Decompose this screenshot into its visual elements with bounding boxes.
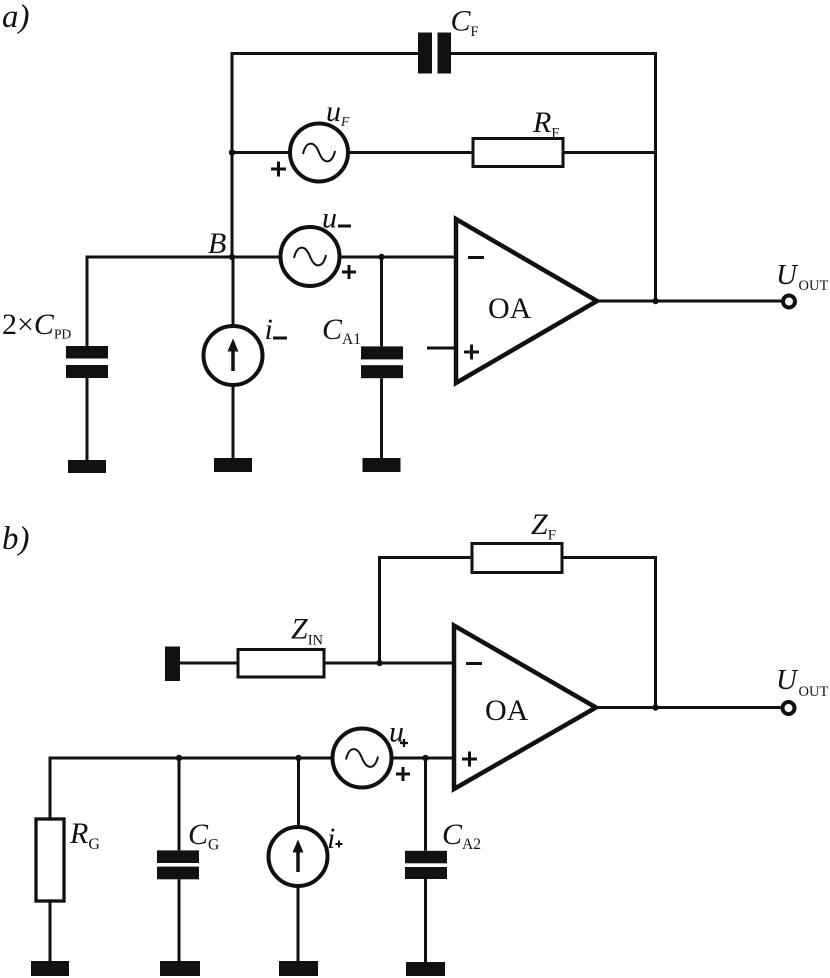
plus mark op-amp b (462, 752, 477, 767)
svg-text:CA1: CA1 (322, 313, 361, 348)
svg-text:i: i (265, 313, 273, 346)
voltage source u_plus (333, 729, 392, 788)
node junction C_A2 tap (422, 755, 428, 761)
capacitor C_A2 branch wire (424, 758, 427, 851)
op-amp U2 (OA) figure b (454, 626, 596, 790)
resistor R_G (36, 819, 64, 901)
svg-text:U: U (776, 259, 799, 291)
wire u_plus to op-amp b (392, 757, 455, 760)
wire C_G to ground (178, 879, 181, 961)
voltage source u_F (290, 124, 348, 182)
node B junction (229, 254, 235, 260)
plus input stub op-amp a (427, 347, 456, 350)
resistor Z_IN (238, 650, 324, 678)
svg-text:u: u (322, 202, 337, 235)
svg-text:OUT: OUT (799, 684, 829, 700)
current source i_minus (204, 326, 263, 385)
resistor Z_F (472, 544, 562, 573)
wire output a (597, 300, 783, 303)
ground of i_minus (214, 458, 252, 472)
svg-text:CF: CF (451, 5, 479, 40)
wire i_minus to ground (232, 385, 235, 458)
capacitor C_A1 branch wire (380, 257, 383, 346)
output terminal b (783, 702, 795, 714)
capacitor C_F (418, 33, 451, 74)
svg-text:2×CPD: 2×CPD (2, 308, 71, 342)
input terminal bar Z_IN (165, 647, 180, 682)
node junction C_G tap (176, 755, 182, 761)
svg-text:ZIN: ZIN (291, 613, 324, 649)
plus mark of u_minus (342, 265, 356, 279)
wire i_plus to ground (297, 886, 300, 961)
wire u_minus to op-amp (340, 256, 457, 259)
node junction C_A1 tap (378, 254, 384, 260)
voltage source u_minus (281, 227, 340, 286)
node junction output a (652, 298, 658, 304)
svg-text:CA2: CA2 (442, 818, 481, 853)
svg-text:ZF: ZF (531, 508, 556, 544)
svg-text:i: i (327, 822, 335, 855)
ground of 2xC_PD (68, 460, 106, 473)
resistor R_F (473, 139, 563, 167)
svg-text:OA: OA (488, 292, 532, 325)
svg-text:b): b) (2, 521, 30, 557)
minus mark op-amp b (466, 662, 482, 665)
node junction at 232,152.5 (229, 149, 235, 155)
capacitor 2xC_PD branch wire (86, 256, 89, 347)
wire R_F to right vertical (563, 151, 656, 154)
ground of C_A1 (363, 458, 401, 472)
plus mark op-amp a (464, 345, 479, 360)
svg-text:OA: OA (485, 694, 529, 727)
ground of C_G (160, 961, 200, 976)
current source i_minus wire from B (232, 257, 235, 327)
wire C_A2 to ground (424, 879, 427, 962)
svg-text:RG: RG (69, 817, 100, 853)
capacitor 2xC_PD (66, 346, 108, 378)
current source i_plus (269, 827, 328, 886)
wire u_F to R_F (348, 151, 473, 154)
wire right vertical (output to C_F) (654, 52, 657, 301)
svg-text:a): a) (2, 0, 30, 35)
minus mark op-amp a (468, 256, 484, 259)
wire B row left (87, 256, 281, 259)
wire left vertical from top to node B (231, 52, 234, 257)
wire bottom rail left (49, 757, 333, 760)
output terminal a (783, 296, 795, 308)
op-amp U1 (OA) figure a (456, 219, 597, 383)
wire feedback right vertical b (654, 556, 657, 708)
wire terminal to Z_IN (180, 662, 238, 665)
current source i_plus wire (297, 758, 300, 828)
svg-text:U: U (776, 664, 799, 696)
node junction inverting input b (376, 660, 382, 666)
wire top feedback left segment (232, 52, 418, 55)
svg-text:uF: uF (326, 95, 350, 129)
ground of R_G (31, 961, 69, 976)
wire R_G to ground (49, 901, 52, 961)
capacitor C_A2 (405, 851, 447, 879)
wire u_F row left (232, 151, 290, 154)
plus mark of u_F (271, 162, 286, 177)
svg-text:OUT: OUT (799, 278, 829, 294)
resistor R_G branch wire (49, 757, 52, 820)
capacitor C_A1 (361, 346, 403, 378)
wire output b (596, 706, 783, 709)
wire Z_IN to op-amp b (324, 662, 454, 665)
wire top feedback right segment (451, 52, 656, 55)
wire 2xC_PD to ground (86, 378, 89, 460)
plus mark of u_plus (396, 767, 410, 781)
wire feedback left vertical b (378, 556, 381, 663)
ground of i_plus (279, 961, 318, 976)
ground of C_A2 (406, 962, 445, 976)
node junction i_plus tap (295, 755, 301, 761)
wire Z_F top left (380, 556, 473, 559)
svg-text:B: B (208, 227, 226, 260)
svg-text:RF: RF (532, 106, 559, 141)
capacitor C_G (157, 850, 199, 879)
wire Z_F top right (562, 556, 656, 559)
capacitor C_G branch wire (178, 758, 181, 850)
wire C_A1 to ground (380, 378, 383, 458)
svg-text:CG: CG (188, 818, 219, 854)
node junction output b (652, 704, 658, 710)
